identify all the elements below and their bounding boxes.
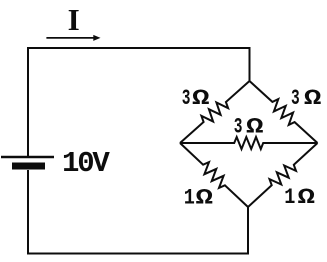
svg-text:10V: 10V	[62, 147, 110, 180]
svg-text:Ω: Ω	[195, 185, 213, 210]
svg-text:3: 3	[291, 85, 300, 111]
svg-text:3: 3	[234, 114, 243, 140]
svg-text:1: 1	[184, 186, 195, 211]
svg-text:1: 1	[284, 186, 295, 211]
svg-text:Ω: Ω	[192, 85, 210, 110]
svg-text:I: I	[68, 2, 80, 37]
svg-text:Ω: Ω	[246, 114, 264, 139]
svg-text:Ω: Ω	[297, 185, 315, 210]
svg-text:Ω: Ω	[304, 85, 322, 110]
svg-text:3: 3	[182, 85, 191, 111]
